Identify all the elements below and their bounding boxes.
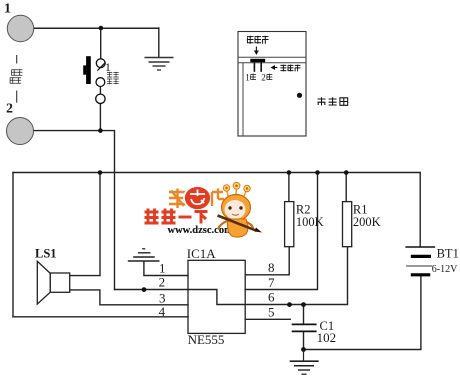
维库一下 red text [145,209,208,224]
red oval with 芯 [184,186,211,210]
svg-text:1: 1 [4,2,11,17]
arrow down [254,47,259,56]
text 接动 [11,69,22,75]
wire pin8 to R2 bottom [245,247,289,275]
wire node to speaker top [70,173,100,276]
crown stalks [227,188,247,197]
svg-text:8: 8 [268,260,275,275]
wire circle1 to ground corner [21,27,159,29]
resistor R1 body [343,202,352,247]
ground G3 (below C1) [290,361,319,374]
dot on pin2 wire [142,287,147,292]
speaker LS1 cone [37,261,50,304]
terminal circle 2 [7,118,34,145]
arm right [246,222,253,228]
capacitor C1 plates [292,323,317,325]
text 示意图 [318,97,348,105]
connector dash below [16,91,18,103]
arrow left [271,65,278,70]
body [228,219,249,237]
face [225,200,246,219]
dot on pin6 wire [287,302,292,307]
switch S1 contact middle [96,78,105,87]
wire G3 stem [303,350,305,362]
contact bar [250,59,265,62]
svg-text:2: 2 [6,102,13,117]
ground G1 [145,58,174,71]
svg-text:IC1A: IC1A [187,246,217,261]
wire R1 top lead [345,173,347,202]
片 stylized [212,189,224,207]
wire C1 bottom lead [303,332,305,349]
wire ground stem G1 [158,28,160,57]
inset inner left wall [242,63,244,136]
svg-text:2: 2 [261,72,266,82]
svg-text:5: 5 [268,304,275,319]
wire ground stem G2 to pin1 [144,262,188,276]
pen [218,216,257,231]
wire pin2 through IC to pin6 and R1 [115,247,348,305]
wire switch top [100,28,102,59]
text 静触片 [247,36,269,44]
switch S1 contact top (with slash) [96,59,105,68]
terminal circle 1 [7,15,33,41]
svg-text:1: 1 [245,72,250,82]
wire speaker bottom to pin3 [70,290,188,305]
junction dot at switch top [99,26,104,31]
svg-text:1: 1 [105,60,111,74]
svg-text:NE555: NE555 [188,332,225,347]
dot at C1 bottom [301,347,306,352]
inset dot [297,93,302,98]
inset band lines [238,56,306,58]
svg-text:4: 4 [159,304,166,319]
eyes [228,206,231,209]
wire pin5 [245,318,290,320]
IC box U1 [188,260,245,333]
wire circle2 to corner [20,131,115,290]
switch S1 button [86,56,91,84]
wire top rail [13,172,420,174]
找 stylized [169,189,186,209]
arm left [218,221,227,229]
svg-text:www.dzsc.com: www.dzsc.com [168,225,234,236]
svg-text:LS1: LS1 [35,247,57,261]
junction dot at circle2 node [98,128,103,133]
wire pin7 to top rail [245,173,317,290]
wire rail to battery positive [419,173,421,247]
watermark logo [145,182,263,237]
svg-text:7: 7 [268,275,275,290]
mascot [218,182,263,237]
resistor R2 body [285,202,294,247]
contact legs [253,62,255,72]
text 触点 [10,77,21,83]
svg-text:102: 102 [317,330,337,345]
wire battery negative return [304,276,421,349]
wire R2 top lead [288,173,290,202]
svg-text:6-12V: 6-12V [432,264,458,275]
wire left rail [12,173,14,317]
text 动触片 [281,65,301,72]
text 控制 [107,72,119,78]
switch S1 contact bottom [96,94,105,103]
svg-text:200K: 200K [353,215,381,229]
junction dots on top rail [98,170,103,175]
svg-text:6: 6 [268,290,275,305]
dot at C1 top [301,302,306,307]
svg-text:1: 1 [159,260,166,275]
wire between middle and bottom switch contacts [99,87,101,95]
ground G2 (pin1, inverted) [128,249,160,261]
inset box [238,32,306,137]
wire pin4 [13,316,188,318]
svg-text:BT1: BT1 [437,247,459,261]
speaker LS1 frame [50,273,69,292]
svg-text:100K: 100K [296,215,324,229]
connector dash above [16,55,18,64]
text 开关 [107,79,119,85]
head [222,195,251,221]
wire switch bottom to node [99,103,101,130]
battery BT1 plates [405,246,435,248]
svg-text:2: 2 [159,275,166,290]
wire C1 top lead [303,305,305,324]
